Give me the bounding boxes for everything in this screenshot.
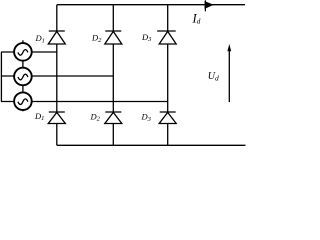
svg-text:Ud: Ud <box>208 71 219 83</box>
